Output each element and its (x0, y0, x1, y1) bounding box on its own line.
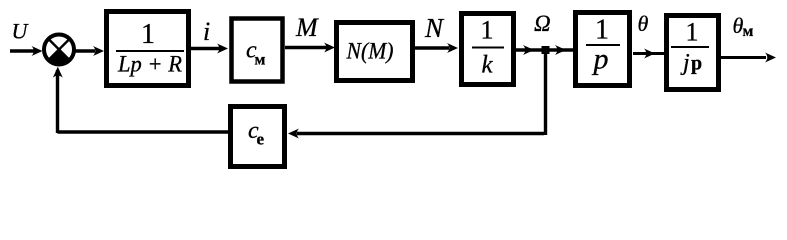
block W1 1/(Lp+R) (107, 12, 189, 86)
summing junction (44, 35, 74, 65)
wire Cm to N(M) (285, 46, 327, 49)
svg-text:1: 1 (595, 15, 609, 46)
svg-text:k: k (481, 52, 493, 79)
svg-text:M: M (295, 13, 319, 42)
svg-text:м: м (255, 52, 266, 69)
svg-text:1: 1 (686, 18, 699, 47)
svg-text:p: p (592, 43, 609, 76)
block W2 1/k (462, 14, 514, 85)
wire W1 to Cm (191, 47, 220, 50)
svg-text:Ω: Ω (534, 11, 551, 36)
svg-text:Lp + R: Lp + R (117, 52, 182, 77)
wire 1/p to 1/jp (633, 52, 664, 55)
block W4 1/jp (667, 16, 719, 90)
svg-text:N(M): N(M) (346, 39, 394, 64)
wire feedback horizontal right segment to Ce (297, 132, 544, 135)
junction dot Omega (542, 46, 550, 54)
svg-text:p: p (691, 53, 702, 75)
wire summing junction to block W1 (76, 49, 96, 52)
wire output (721, 56, 766, 59)
svg-text:U: U (12, 19, 30, 44)
svg-text:θ: θ (638, 11, 649, 36)
svg-text:1: 1 (481, 16, 494, 45)
wire 1/k to junction to 1/p (516, 48, 573, 51)
block W3 1/p (576, 13, 630, 86)
svg-text:N: N (424, 13, 445, 43)
wire feedback horizontal left segment from Ce (58, 130, 229, 133)
wire feedback up to summing junction (56, 70, 59, 133)
svg-text:м: м (743, 23, 754, 40)
block N(M) (337, 23, 413, 81)
wire N(M) to 1/k (414, 46, 449, 49)
svg-text:i: i (203, 17, 210, 46)
svg-text:е: е (257, 130, 265, 149)
block Ce (231, 107, 285, 167)
block Cm (232, 19, 283, 82)
svg-text:1: 1 (141, 19, 155, 50)
wire U input (10, 49, 34, 52)
wire feedback down from junction (544, 50, 547, 135)
